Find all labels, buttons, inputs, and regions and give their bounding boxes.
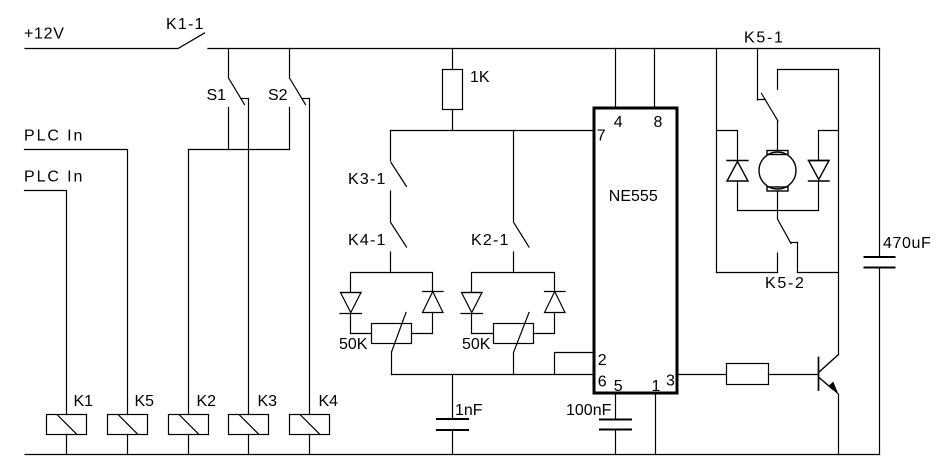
relay coil K5 (108, 415, 148, 455)
svg-text:50K: 50K (339, 336, 368, 353)
relay K2 label (197, 393, 217, 410)
switch S2 throw tick (302, 98, 310, 100)
relay K5 label (135, 393, 155, 410)
diode D2 (423, 292, 444, 334)
contact K4-1 label (348, 232, 387, 249)
svg-text:K2-1: K2-1 (471, 232, 510, 249)
wire left bridge rail (716, 49, 718, 273)
capacitor C3 470uF (865, 49, 895, 455)
svg-text:PLC In: PLC In (24, 128, 84, 145)
relay coil K4 (290, 415, 330, 455)
potentiometer RV1 value 50K (339, 336, 368, 353)
resistor R1 1K (443, 49, 463, 131)
switch S2 label (268, 87, 288, 104)
svg-text:S2: S2 (268, 87, 288, 104)
wire K5-2 left return (717, 272, 778, 274)
wire pin7 bus (391, 130, 595, 132)
switch S1 throw tick (241, 98, 249, 100)
node PLC In 1 label (24, 128, 84, 145)
wire left diode branch top (717, 131, 738, 161)
diode D4 (545, 292, 566, 334)
diode D6 (809, 161, 830, 211)
relay K1 label (74, 393, 94, 410)
wire right diode branch top (819, 131, 839, 161)
contact K4-1 (391, 223, 407, 273)
wire network2 top (472, 273, 555, 293)
wire S1 output to K3 coil (248, 99, 250, 415)
svg-text:8: 8 (654, 114, 663, 131)
wire S1/S2 lower bus (189, 149, 290, 151)
node +12V label (24, 26, 65, 43)
wire pin8 to rail (654, 49, 656, 109)
wire pin4 to rail (615, 49, 617, 109)
switch S2 lower contact (289, 108, 291, 150)
svg-text:K4: K4 (319, 393, 339, 410)
diode D5 (727, 161, 748, 211)
wire PLC In 1 to K5 coil (25, 150, 128, 415)
pin 2 label (598, 352, 607, 369)
wire bus to K2 coil (188, 150, 190, 415)
switch S1 common drop (228, 49, 230, 79)
wire +12V rail left (25, 48, 178, 50)
wire motor bottom (777, 191, 779, 219)
svg-text:S1: S1 (207, 87, 227, 104)
contact K5-2 label (765, 275, 806, 292)
svg-text:PLC In: PLC In (24, 169, 84, 186)
capacitor C1 1nF (437, 375, 468, 455)
diode D3 (461, 293, 483, 334)
wire threshold bus to pin6 (392, 374, 595, 376)
motor M1 (759, 151, 796, 192)
relay coil K1 (47, 415, 87, 455)
svg-text:K1-1: K1-1 (166, 16, 205, 33)
contact K2-1 label (471, 232, 510, 249)
switch S2 common drop (289, 49, 291, 79)
wire +12V rail right (208, 48, 880, 50)
switch S1 blade (229, 78, 245, 105)
svg-text:K1: K1 (74, 393, 94, 410)
contact K1-1 label (166, 16, 205, 33)
svg-text:6: 6 (598, 374, 607, 391)
wire K5-2 right to collector (798, 272, 839, 274)
svg-text:K3-1: K3-1 (348, 171, 387, 188)
svg-text:K3: K3 (258, 393, 278, 410)
svg-text:K5-1: K5-1 (744, 30, 785, 47)
pin 7 label (597, 128, 606, 145)
svg-text:K4-1: K4-1 (348, 232, 387, 249)
svg-text:K5: K5 (135, 393, 155, 410)
svg-text:3: 3 (666, 373, 675, 390)
wire PLC In 2 to K1 coil (25, 191, 67, 415)
relay K4 label (319, 393, 339, 410)
relay K3 label (258, 393, 278, 410)
svg-text:K2: K2 (197, 393, 217, 410)
svg-text:NE555: NE555 (609, 188, 658, 205)
relay coil K2 (169, 415, 209, 455)
wire S2 output to K4 coil (309, 99, 311, 415)
transistor Q1 (819, 355, 839, 455)
capacitor C2 100nF (600, 393, 631, 455)
svg-text:1K: 1K (470, 69, 490, 86)
potentiometer RV1 50K (351, 313, 433, 375)
svg-text:+12V: +12V (24, 26, 65, 43)
resistor R2 base (727, 364, 819, 385)
capacitor C2 value 100nF (566, 402, 612, 419)
wire pin3 output (677, 374, 727, 376)
contact K5-2 (778, 219, 798, 273)
svg-text:4: 4 (614, 114, 623, 131)
wire ground rail bottom (25, 454, 880, 456)
switch S1 label (207, 87, 227, 104)
op-amp U1 NE555 body (594, 108, 677, 393)
svg-text:2: 2 (598, 352, 607, 369)
svg-text:1nF: 1nF (455, 402, 483, 419)
wire bridge bottom bus (738, 210, 819, 212)
wire right bridge rail (838, 70, 840, 355)
pin 3 label (666, 373, 675, 390)
pin 8 label (654, 114, 663, 131)
contact K5-1 label (744, 30, 785, 47)
contact K2-1 (514, 131, 530, 273)
capacitor C3 value 470uF (883, 235, 931, 252)
svg-text:470uF: 470uF (883, 235, 931, 252)
capacitor C1 value 1nF (455, 402, 483, 419)
svg-text:50K: 50K (462, 336, 491, 353)
wire trigger step to pin2 (555, 353, 595, 375)
svg-text:K5-2: K5-2 (765, 275, 806, 292)
wire motor top (777, 121, 779, 151)
svg-text:100nF: 100nF (566, 402, 612, 419)
pin 1 label (652, 378, 661, 395)
relay coil K3 (229, 415, 269, 455)
svg-text:7: 7 (597, 128, 606, 145)
switch S2 blade (290, 78, 306, 105)
pin 5 label (614, 378, 623, 395)
contact K5-1 (758, 49, 779, 122)
pin 4 label (614, 114, 623, 131)
potentiometer RV2 50K (472, 313, 555, 375)
contact K1-1 blade (178, 33, 205, 49)
contact K3-1 label (348, 171, 387, 188)
wire network1 top (351, 273, 433, 293)
potentiometer RV2 value 50K (462, 336, 491, 353)
resistor R1 value 1K (470, 69, 490, 86)
op-amp U1 name NE555 (609, 188, 658, 205)
wire pin1 to ground rail (655, 393, 657, 455)
diode D1 (340, 293, 362, 334)
contact K3-1 (391, 131, 407, 223)
node PLC In 2 label (24, 169, 84, 186)
switch S1 lower contact (228, 108, 230, 150)
pin 6 label (598, 374, 607, 391)
wire K5-1 throw to right rail (778, 69, 839, 71)
